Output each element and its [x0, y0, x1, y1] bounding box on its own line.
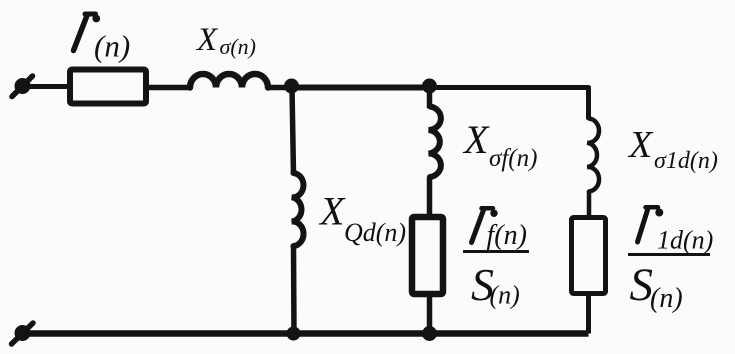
svg-text:(n): (n): [94, 29, 130, 64]
label X_sigma_f(n): [462, 117, 537, 172]
inductor X_sigma_f(n): [429, 107, 441, 178]
resistor r_f(n)/S(n): [412, 217, 443, 294]
wire (branch C middle): [587, 191, 592, 217]
wire (top bus A to B): [292, 85, 430, 91]
label X_sigma(n): [195, 22, 256, 59]
label X_Qd(n): [318, 189, 406, 248]
wire (bottom bus): [28, 330, 589, 337]
svg-text:X: X: [627, 124, 654, 166]
resistor r_1d(n)/S(n): [572, 218, 606, 294]
label X_sigma_1d(n): [627, 124, 718, 174]
wire (branch A lower): [291, 245, 297, 334]
resistor r(n): [70, 70, 146, 104]
inductor X_sigma(n): [190, 74, 268, 88]
svg-text:σ1d(n): σ1d(n): [654, 148, 718, 174]
node (bottom junction A): [287, 327, 301, 341]
node (top junction B): [422, 79, 437, 94]
input terminal (top left): [12, 76, 68, 97]
inductor X_Qd(n): [292, 173, 304, 246]
wire (branch C lower, bottom right corner): [586, 293, 591, 334]
svg-text:f(n): f(n): [487, 220, 527, 251]
wire (branch B lower): [427, 297, 433, 334]
svg-text:σf(n): σf(n): [489, 145, 537, 172]
svg-text:Qd(n): Qd(n): [344, 218, 406, 247]
node (bottom junction B): [422, 326, 437, 341]
inductor X_sigma_1d(n): [587, 119, 599, 192]
wire (branch A upper): [292, 88, 294, 175]
wire: [149, 85, 191, 91]
svg-text:(n): (n): [490, 281, 520, 310]
wire: [268, 85, 292, 91]
output terminal (bottom left): [12, 323, 34, 344]
svg-text:σ(n): σ(n): [220, 34, 257, 59]
svg-text:1d(n): 1d(n): [657, 226, 713, 255]
svg-text:X: X: [318, 189, 346, 234]
svg-text:(n): (n): [650, 283, 683, 314]
wire (branch B upper): [427, 88, 433, 109]
svg-text:X: X: [195, 22, 219, 58]
wire (branch B middle): [427, 177, 433, 216]
node (top junction A): [284, 79, 299, 94]
label r_1d(n)/S(n) fraction: [628, 207, 713, 314]
label r(n): [74, 14, 131, 64]
label r_f(n)/S(n) fraction: [463, 208, 529, 310]
wire (top bus B to right corner, down): [430, 88, 589, 120]
svg-text:X: X: [462, 117, 490, 162]
